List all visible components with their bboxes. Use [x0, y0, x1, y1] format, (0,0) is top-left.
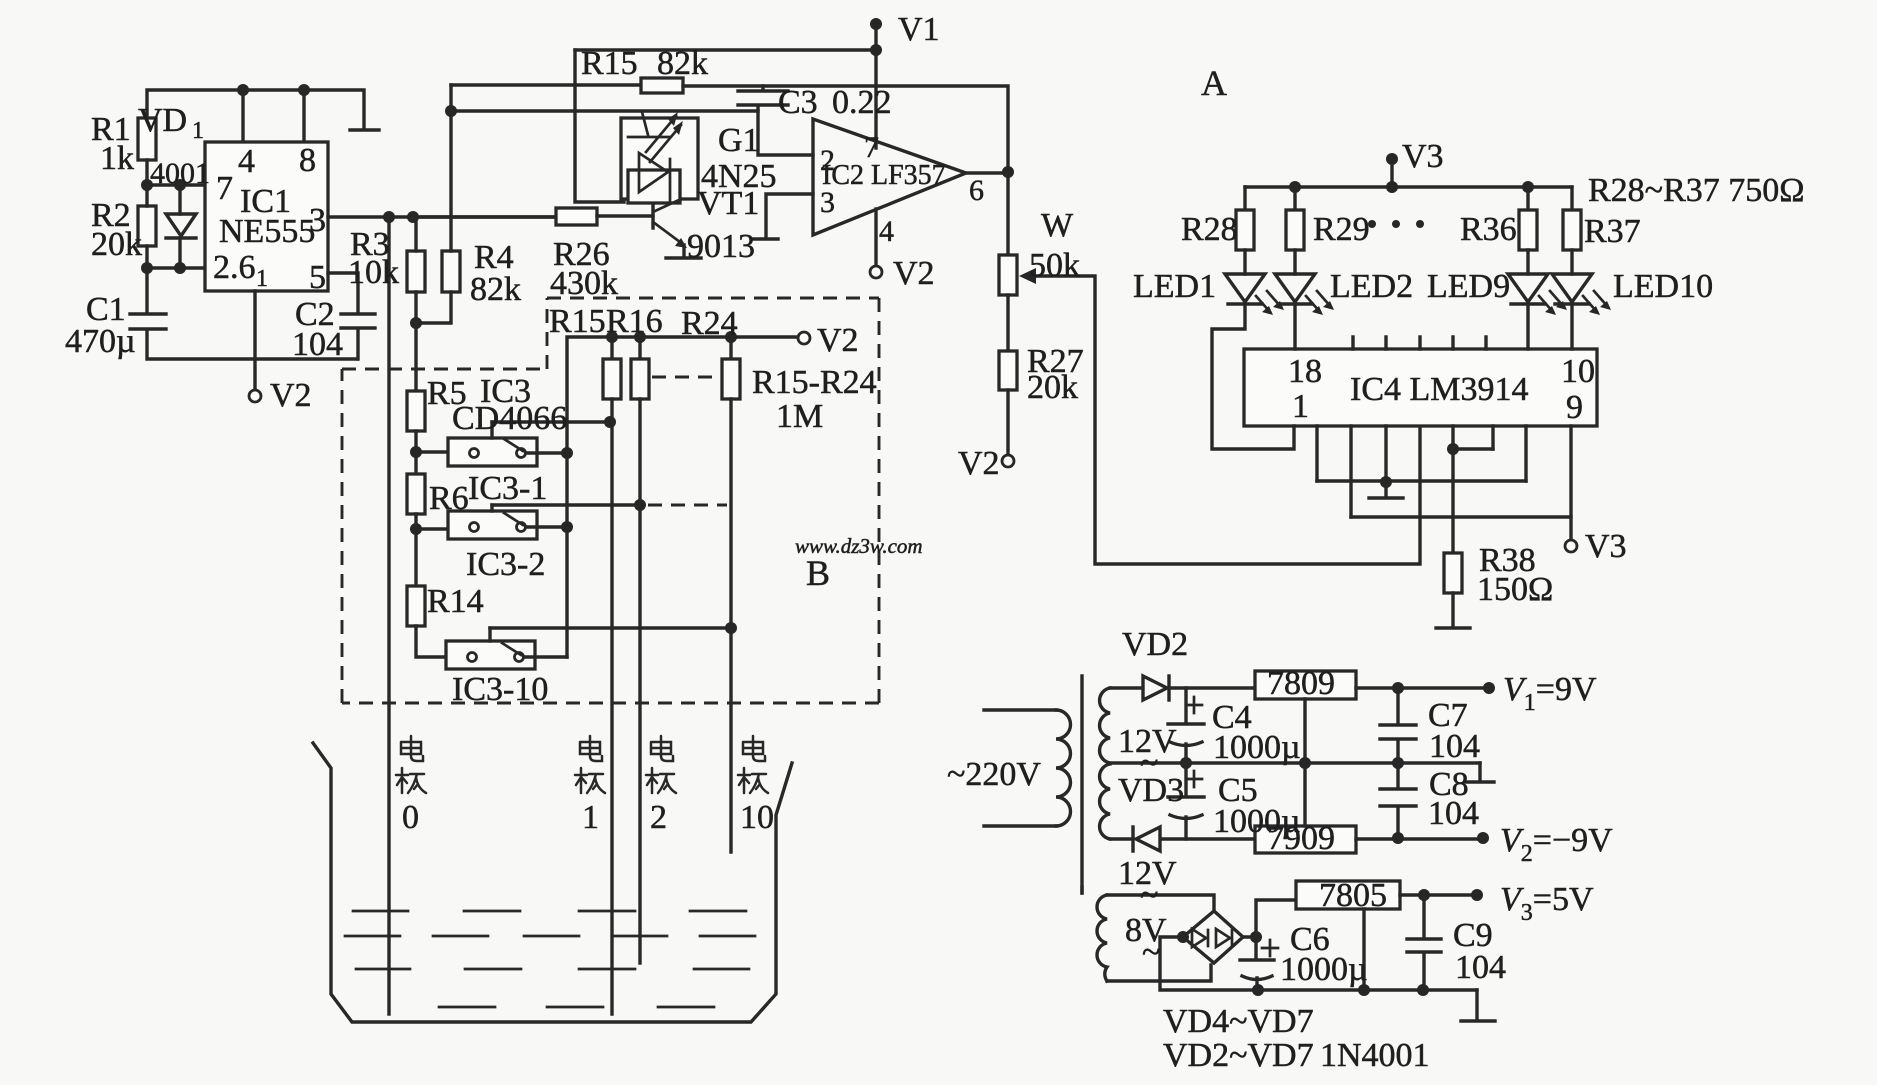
svg-text:8: 8 [299, 142, 316, 179]
svg-text:CD4066: CD4066 [452, 400, 567, 437]
svg-text:4: 4 [879, 215, 894, 248]
svg-text:1000µ: 1000µ [1213, 803, 1301, 840]
svg-text:VD3: VD3 [1118, 772, 1184, 809]
svg-text:150Ω: 150Ω [1477, 571, 1553, 608]
svg-text:VD2: VD2 [1122, 626, 1188, 663]
svg-text:W: W [1041, 207, 1074, 244]
svg-text:7809: 7809 [1267, 665, 1335, 702]
svg-text:VD2~VD7: VD2~VD7 [1163, 1037, 1314, 1074]
svg-text:C3: C3 [778, 84, 818, 121]
svg-text:82k: 82k [657, 45, 708, 82]
svg-text:V3: V3 [1585, 528, 1627, 565]
svg-text:50k: 50k [1029, 247, 1080, 284]
svg-text:V3: V3 [1402, 138, 1444, 175]
svg-text:R24: R24 [681, 305, 738, 342]
svg-text:IC4 LM3914: IC4 LM3914 [1350, 371, 1529, 408]
svg-text:IC3-1: IC3-1 [468, 470, 547, 507]
svg-text:10: 10 [740, 799, 774, 836]
svg-text:0: 0 [402, 799, 419, 836]
svg-text:V2: V2 [958, 445, 1000, 482]
svg-text:9013: 9013 [687, 228, 755, 265]
svg-text:430k: 430k [550, 265, 618, 302]
svg-text:1N4001: 1N4001 [1320, 1037, 1430, 1074]
svg-text:6: 6 [969, 174, 984, 207]
svg-text:V1: V1 [898, 11, 940, 48]
svg-text:82k: 82k [470, 271, 521, 308]
svg-text:1M: 1M [776, 398, 823, 435]
svg-text:R28~R37 750Ω: R28~R37 750Ω [1588, 172, 1805, 209]
svg-text:10: 10 [1561, 353, 1595, 390]
svg-text:LED10: LED10 [1613, 268, 1713, 305]
svg-text:9: 9 [1566, 389, 1583, 426]
svg-text:V2: V2 [817, 322, 859, 359]
svg-text:104: 104 [1429, 728, 1480, 765]
svg-text:LED2: LED2 [1330, 268, 1413, 305]
svg-text:R36: R36 [1460, 211, 1517, 248]
svg-text:V2=−9V: V2=−9V [1500, 822, 1613, 867]
svg-text:A: A [1201, 63, 1227, 103]
svg-text:VD: VD [138, 102, 187, 139]
svg-text:V1=9V: V1=9V [1503, 671, 1597, 716]
svg-text:R37: R37 [1584, 213, 1641, 250]
svg-text:~: ~ [1140, 877, 1158, 914]
svg-text:104: 104 [292, 326, 343, 363]
svg-text:LED1: LED1 [1133, 268, 1216, 305]
svg-text:IC3-10: IC3-10 [452, 671, 548, 708]
svg-text:4001: 4001 [150, 157, 210, 190]
svg-text:IC3-2: IC3-2 [466, 546, 545, 583]
svg-text:~: ~ [1142, 934, 1160, 971]
svg-text:0.22: 0.22 [832, 84, 892, 121]
svg-text:20k: 20k [1027, 369, 1078, 406]
svg-text:NE555: NE555 [219, 213, 315, 250]
svg-text:1: 1 [1292, 388, 1309, 425]
svg-text:B: B [806, 553, 830, 593]
svg-text:2.6: 2.6 [213, 249, 256, 286]
svg-text:7805: 7805 [1319, 877, 1387, 914]
svg-text:2: 2 [650, 799, 667, 836]
svg-text:VD4~VD7: VD4~VD7 [1163, 1003, 1314, 1040]
svg-text:VT1: VT1 [697, 185, 759, 222]
svg-text:5: 5 [309, 259, 326, 296]
svg-text:18: 18 [1288, 353, 1322, 390]
svg-text:R28: R28 [1181, 211, 1238, 248]
svg-text:~220V: ~220V [947, 756, 1041, 793]
svg-text:V2: V2 [270, 377, 312, 414]
svg-text:R16: R16 [606, 303, 663, 340]
svg-text:104: 104 [1428, 795, 1479, 832]
svg-text:20k: 20k [91, 226, 142, 263]
svg-text:G1: G1 [718, 122, 760, 159]
svg-text:R6: R6 [429, 480, 469, 517]
svg-text:1: 1 [582, 799, 599, 836]
svg-text:1: 1 [256, 266, 268, 292]
svg-text:V3=5V: V3=5V [1500, 881, 1594, 926]
svg-text:1k: 1k [100, 140, 134, 177]
svg-text:1000µ: 1000µ [1213, 729, 1301, 766]
svg-text:R15: R15 [581, 45, 638, 82]
svg-text:3: 3 [309, 202, 326, 239]
svg-text:1000µ: 1000µ [1280, 951, 1368, 988]
svg-text:R15-R24: R15-R24 [752, 364, 877, 401]
svg-text:470µ: 470µ [65, 323, 136, 360]
svg-text:R15: R15 [549, 303, 606, 340]
svg-text:V2: V2 [893, 255, 935, 292]
svg-text:7: 7 [216, 170, 233, 207]
svg-text:1: 1 [192, 118, 204, 144]
svg-text:104: 104 [1455, 949, 1506, 986]
svg-text:10k: 10k [348, 254, 399, 291]
svg-text:R29: R29 [1313, 211, 1370, 248]
svg-text:4: 4 [238, 143, 255, 180]
svg-text:R14: R14 [427, 583, 484, 620]
svg-text:LED9: LED9 [1427, 268, 1510, 305]
svg-text:www.dz3w.com: www.dz3w.com [795, 534, 923, 558]
svg-text:IC2 LF357: IC2 LF357 [822, 160, 946, 191]
